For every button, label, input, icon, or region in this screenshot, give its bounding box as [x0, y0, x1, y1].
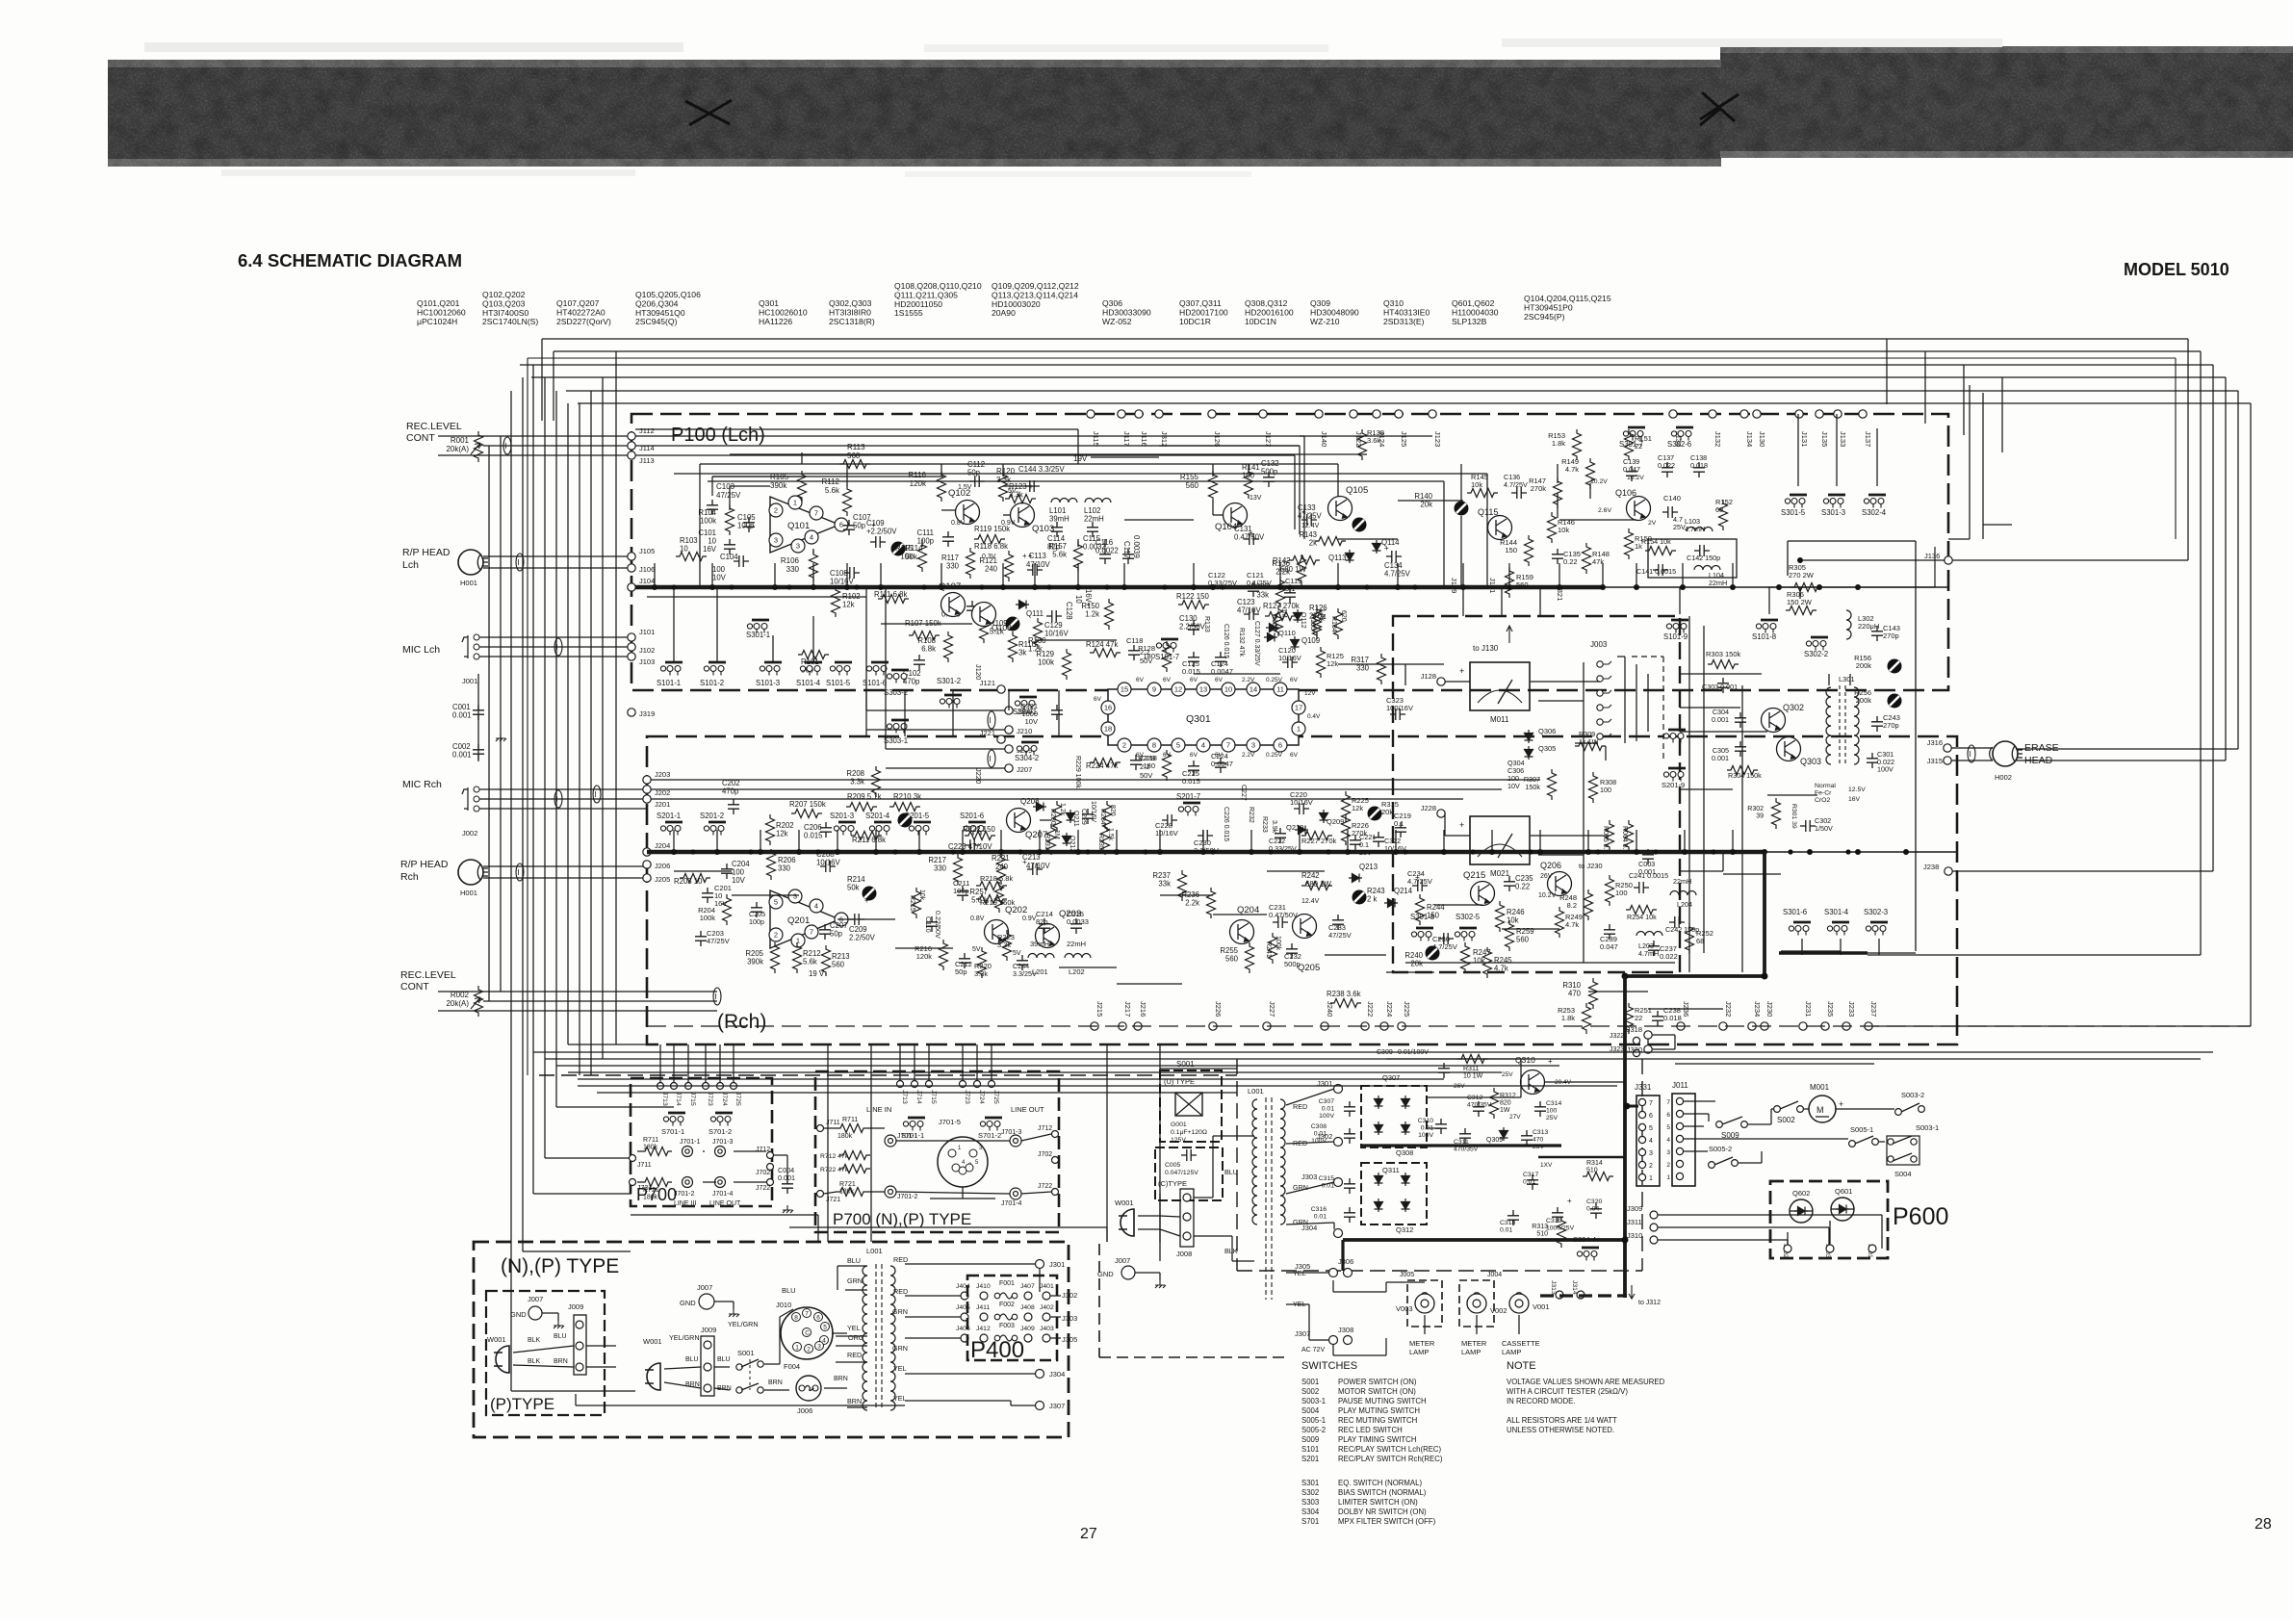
capacitor C211: [957, 886, 968, 901]
svg-text:to J312: to J312: [1638, 1300, 1661, 1306]
junction: [1075, 849, 1081, 855]
svg-text:R227 270k: R227 270k: [1301, 837, 1337, 845]
svg-text:2: 2: [1666, 1162, 1670, 1169]
svg-text:2: 2: [1649, 1163, 1653, 1170]
resistor R150b: [1625, 528, 1634, 559]
svg-text:SLP132B: SLP132B: [1452, 317, 1487, 326]
svg-text:3.6k: 3.6k: [1367, 436, 1380, 445]
svg-text:J115: J115: [1092, 431, 1100, 447]
pin 8: [1147, 738, 1161, 752]
svg-text:to J130: to J130: [1473, 644, 1499, 653]
svg-text:R301 39: R301 39: [1791, 804, 1797, 829]
svg-text:12: 12: [1174, 685, 1182, 694]
switch S201-3: [834, 822, 856, 836]
capacitor C236: [1438, 933, 1454, 944]
svg-text:180k: 180k: [643, 1145, 658, 1151]
wire: [866, 709, 1005, 711]
inductor L302: [1846, 610, 1851, 639]
capacitor C204: [721, 864, 733, 879]
connector J136r: [1945, 556, 1952, 564]
inductor L103: [1687, 528, 1713, 532]
svg-text:390k: 390k: [747, 958, 763, 967]
svg-text:27V: 27V: [1509, 1114, 1521, 1121]
svg-text:25V: 25V: [1533, 1144, 1545, 1150]
svg-text:AC 72V: AC 72V: [1301, 1347, 1325, 1353]
svg-text:S301-3: S301-3: [1821, 508, 1845, 517]
potentiometer pot: [1353, 518, 1367, 532]
svg-text:S201-3: S201-3: [830, 812, 854, 820]
capacitor C203: [695, 931, 707, 946]
svg-text:C318: C318: [1500, 1220, 1515, 1226]
svg-text:R218 6.8k: R218 6.8k: [980, 874, 1013, 883]
capacitor C112: [969, 476, 985, 487]
svg-text:3k: 3k: [1018, 649, 1026, 657]
svg-text:R313: R313: [1532, 1224, 1548, 1230]
svg-text:J230: J230: [1765, 1001, 1774, 1017]
resistor R236: [1207, 888, 1216, 918]
svg-text:Q308: Q308: [1396, 1148, 1413, 1157]
svg-text:C229: C229: [1080, 809, 1087, 825]
svg-text:1.5k: 1.5k: [1107, 828, 1114, 841]
svg-text:J713: J713: [901, 1090, 908, 1104]
connector J701-4: [715, 1177, 726, 1188]
svg-text:J402: J402: [1040, 1304, 1054, 1311]
wire meter box feeds: [1680, 673, 1762, 675]
transistor Q215: [1471, 882, 1495, 906]
rectifier Q307 Q308 box: [1361, 1086, 1427, 1147]
capacitor C312: [1473, 1101, 1484, 1117]
resistor R112: [843, 485, 852, 516]
connector J313: [1556, 1291, 1563, 1299]
svg-text:500p: 500p: [1284, 960, 1301, 968]
svg-text:C126 0.015: C126 0.015: [1223, 624, 1229, 658]
svg-text:J210: J210: [1017, 727, 1032, 735]
svg-text:NOTE: NOTE: [1507, 1360, 1536, 1372]
wire: [905, 1373, 1036, 1375]
svg-text:J313: J313: [1550, 1280, 1557, 1295]
svg-text:0.022: 0.022: [1660, 952, 1678, 961]
svg-text:180k: 180k: [837, 1133, 853, 1140]
svg-text:0.8V: 0.8V: [970, 915, 985, 922]
transistor Q302: [1762, 709, 1786, 733]
svg-text:L202: L202: [1069, 967, 1085, 976]
connector J117: [1118, 410, 1125, 418]
svg-text:R222 150: R222 150: [963, 825, 995, 834]
svg-text:+: +: [1839, 1099, 1843, 1109]
svg-text:J321: J321: [1556, 585, 1564, 601]
wire 19V rail: [700, 463, 1338, 465]
wire bold vertical: [1623, 976, 1627, 1298]
inductor L204: [1670, 891, 1696, 896]
scan mark X left: [685, 100, 732, 125]
wire nest top: [542, 338, 2188, 340]
svg-text:J724: J724: [721, 1092, 728, 1106]
resistor R220: [978, 947, 987, 978]
svg-text:Normal: Normal: [1815, 783, 1836, 789]
resistor R216: [940, 940, 948, 970]
transistor Q202: [985, 920, 1009, 944]
svg-text:R210 3k: R210 3k: [893, 792, 921, 801]
diode Q306: [1525, 730, 1533, 743]
wire meter internal: [1583, 662, 1584, 963]
svg-text:0.047: 0.047: [1623, 465, 1640, 474]
wire: [1286, 1089, 1334, 1105]
svg-text:10.2V: 10.2V: [1590, 478, 1608, 485]
connector J140: [1315, 410, 1323, 418]
svg-text:R221: R221: [992, 854, 1010, 863]
svg-text:5: 5: [774, 898, 778, 907]
resistor R131: [1275, 606, 1283, 636]
svg-text:J007: J007: [1115, 1256, 1130, 1265]
svg-text:P400: P400: [970, 1337, 1024, 1363]
svg-text:J410: J410: [976, 1283, 991, 1290]
svg-text:R211 6.8k: R211 6.8k: [852, 836, 886, 844]
connector J207: [1005, 764, 1013, 772]
resistor R126: [1313, 608, 1322, 639]
svg-text:25V: 25V: [1359, 848, 1372, 857]
connector J202: [643, 786, 651, 793]
svg-text:J007: J007: [528, 1295, 543, 1303]
svg-text:S004: S004: [1894, 1170, 1912, 1178]
svg-text:0.001: 0.001: [778, 1173, 795, 1182]
svg-text:J701-1: J701-1: [897, 1133, 918, 1140]
svg-text:4: 4: [1201, 741, 1205, 750]
svg-text:J123: J123: [1433, 431, 1442, 447]
wire: [1332, 1280, 1334, 1292]
capacitor C208: [820, 861, 836, 872]
capacitor C131: [1244, 533, 1259, 545]
junction: [1730, 584, 1736, 590]
svg-text:560: 560: [1225, 955, 1239, 964]
svg-text:8: 8: [1152, 741, 1156, 750]
svg-text:(Rch): (Rch): [717, 1011, 766, 1033]
resistor R128: [1163, 641, 1172, 672]
diode Q211: [1067, 810, 1075, 823]
connector J714: [912, 1081, 918, 1088]
wire: [1658, 1214, 1882, 1216]
resistor R121: [1005, 551, 1014, 581]
svg-text:J104: J104: [639, 577, 655, 585]
svg-text:Q215: Q215: [1463, 870, 1485, 881]
capacitor C143: [1871, 626, 1883, 641]
svg-text:470p: 470p: [722, 787, 739, 796]
connector J301np: [1036, 1260, 1044, 1269]
capacitor C117: [1122, 549, 1134, 564]
lamp box J004: [1459, 1280, 1494, 1327]
capacitor C214: [1039, 918, 1050, 934]
pin 4: [1197, 738, 1210, 752]
svg-text:510: 510: [1536, 1231, 1548, 1238]
resistor R127: [1265, 612, 1296, 621]
switch S303-1: [887, 720, 909, 734]
wire: [1444, 813, 1446, 836]
fuse F003: [905, 1337, 961, 1339]
connector J331 pin 2: [1638, 1161, 1645, 1168]
svg-text:BLU: BLU: [1224, 1168, 1238, 1176]
diode Q213: [1349, 874, 1362, 883]
svg-text:25V: 25V: [1502, 1071, 1513, 1078]
resistor R138: [1358, 429, 1367, 460]
connector J227: [1263, 1022, 1271, 1030]
svg-text:BIAS SWITCH (NORMAL): BIAS SWITCH (NORMAL): [1338, 1488, 1427, 1497]
svg-text:3: 3: [1666, 1149, 1670, 1156]
resistor R106: [810, 551, 818, 581]
svg-text:Q206: Q206: [1540, 861, 1561, 870]
svg-text:F003: F003: [999, 1323, 1015, 1329]
svg-text:4.7/25V: 4.7/25V: [1407, 877, 1432, 886]
svg-text:F004: F004: [784, 1362, 800, 1371]
svg-text:2: 2: [807, 1347, 811, 1353]
svg-text:J725: J725: [734, 1092, 741, 1106]
resistor R210: [889, 803, 920, 812]
svg-text:J228: J228: [1421, 804, 1436, 812]
switch S201-7: [1178, 803, 1200, 816]
svg-text:0.022: 0.022: [1658, 461, 1675, 470]
resistor R123: [1005, 495, 1036, 503]
svg-text:C303 0.001: C303 0.001: [1702, 683, 1738, 691]
svg-text:R154 10k: R154 10k: [1641, 537, 1671, 546]
svg-text:to J230: to J230: [1579, 862, 1603, 870]
wire: [711, 477, 713, 496]
wire bold horizontal: [1625, 974, 1765, 978]
capacitor C304: [1735, 712, 1746, 728]
svg-text:0.001: 0.001: [452, 751, 472, 760]
svg-text:10 1W: 10 1W: [1463, 1073, 1483, 1080]
svg-text:C110: C110: [924, 916, 933, 933]
svg-text:10V: 10V: [1507, 782, 1520, 790]
svg-text:270k: 270k: [1531, 484, 1547, 493]
svg-text:J701-2: J701-2: [897, 1194, 918, 1200]
connector J712b: [1052, 1131, 1059, 1138]
resistor R313: [1558, 1217, 1566, 1248]
junction: [1114, 849, 1120, 855]
svg-text:J412: J412: [976, 1326, 991, 1332]
svg-text:+: +: [1567, 1197, 1572, 1205]
svg-text:R215: R215: [909, 895, 915, 912]
svg-text:J222: J222: [1366, 1001, 1375, 1017]
svg-text:HA11226: HA11226: [759, 317, 792, 326]
resistor R149: [1586, 458, 1595, 489]
connector J216: [1134, 1022, 1142, 1030]
connector J319: [628, 709, 635, 716]
svg-text:1/50V: 1/50V: [1815, 824, 1833, 833]
svg-text:0.22: 0.22: [1515, 883, 1530, 891]
svg-text:J713: J713: [661, 1092, 668, 1106]
svg-text:R238 3.6k: R238 3.6k: [1327, 990, 1361, 998]
svg-text:J301: J301: [1049, 1260, 1065, 1269]
svg-text:Q212: Q212: [1069, 836, 1075, 852]
svg-text:390k: 390k: [770, 481, 787, 490]
wire: [1800, 559, 1945, 561]
svg-text:S005-1: S005-1: [1850, 1125, 1873, 1134]
svg-text:J134: J134: [1745, 431, 1754, 447]
svg-text:22mH: 22mH: [1067, 940, 1086, 948]
svg-text:J723: J723: [964, 1090, 970, 1104]
switch S302-4: [1864, 495, 1886, 508]
svg-text:S005-1: S005-1: [1301, 1416, 1326, 1425]
svg-text:R132 47k: R132 47k: [1238, 628, 1245, 657]
svg-text:J235: J235: [1826, 1001, 1835, 1017]
wire: [647, 1025, 2251, 1027]
resistor R110: [1009, 632, 1018, 662]
connector J112: [628, 432, 635, 440]
svg-text:Q307: Q307: [1382, 1073, 1400, 1082]
potentiometer R315: [1368, 807, 1382, 821]
svg-text:M021: M021: [1490, 869, 1510, 878]
svg-text:0.01: 0.01: [1322, 1106, 1334, 1113]
svg-text:500p: 500p: [1261, 468, 1278, 477]
resistor R203: [680, 874, 710, 883]
junction: [1277, 584, 1283, 590]
junction: [1600, 584, 1606, 590]
svg-text:Q302: Q302: [1783, 703, 1804, 712]
connector J603: [1826, 1245, 1834, 1252]
svg-text:J207: J207: [1017, 765, 1032, 774]
connector J011 pin 3: [1676, 1147, 1683, 1154]
wire bottom mid horizontals: [631, 1214, 818, 1216]
svg-text:WZ-210: WZ-210: [1310, 317, 1340, 326]
svg-text:13V: 13V: [1250, 495, 1262, 502]
svg-text:C314: C314: [1546, 1100, 1561, 1107]
resistor R304: [1727, 766, 1758, 775]
capacitor C244: [1017, 955, 1028, 970]
svg-text:J723: J723: [707, 1092, 713, 1106]
svg-text:P600: P600: [1893, 1203, 1948, 1230]
transistor Q206: [1548, 872, 1572, 896]
junction: [1441, 849, 1447, 855]
wire feeder drops: [659, 1044, 661, 1083]
svg-text:BRN: BRN: [554, 1358, 568, 1365]
diode Q113: [1346, 550, 1354, 563]
capacitor C242: [1669, 916, 1685, 928]
svg-text:10/16V: 10/16V: [1044, 630, 1069, 638]
resistor R124: [1090, 649, 1121, 657]
svg-text:82p: 82p: [1036, 917, 1048, 926]
resistor R145: [1467, 489, 1498, 498]
svg-text:MOTOR SWITCH (ON): MOTOR SWITCH (ON): [1338, 1387, 1416, 1396]
svg-text:J701-3: J701-3: [712, 1139, 734, 1146]
diode Q214: [1384, 899, 1398, 908]
connector J124: [1373, 410, 1380, 418]
transistor Q203: [1036, 924, 1060, 948]
junction: [1345, 849, 1351, 855]
svg-text:2.2k: 2.2k: [1275, 568, 1290, 577]
wire: [438, 435, 631, 437]
svg-text:J128: J128: [1421, 672, 1436, 681]
svg-text:PLAY MUTING SWITCH: PLAY MUTING SWITCH: [1338, 1406, 1420, 1415]
junction: [998, 849, 1004, 855]
connector J102: [628, 643, 635, 651]
wire: [699, 464, 701, 587]
svg-text:0.015: 0.015: [804, 832, 823, 840]
svg-text:4.7k: 4.7k: [1565, 465, 1579, 474]
svg-text:0.22/50V: 0.22/50V: [934, 911, 942, 939]
resistor R302: [1772, 798, 1781, 829]
capacitor C141: [1653, 564, 1668, 576]
svg-text:S301-4: S301-4: [1824, 908, 1849, 916]
svg-text:19 V: 19 V: [809, 969, 825, 978]
svg-text:J206: J206: [655, 862, 670, 870]
svg-text:200k: 200k: [1856, 696, 1872, 705]
svg-text:0.0047: 0.0047: [1211, 667, 1233, 676]
svg-text:50V: 50V: [1140, 771, 1152, 780]
svg-text:RED: RED: [893, 1255, 908, 1264]
svg-text:MIC Rch: MIC Rch: [402, 779, 442, 790]
wire right verticals: [1969, 385, 1971, 539]
resistor R152: [1719, 500, 1728, 530]
resistor R254: [1626, 906, 1657, 915]
svg-text:C141 0.0015: C141 0.0015: [1636, 567, 1676, 576]
svg-text:H001: H001: [460, 889, 477, 897]
connector J307 J308: [1329, 1336, 1338, 1345]
wire Rch bus: [647, 850, 1765, 854]
svg-text:J307: J307: [1295, 1329, 1310, 1338]
lamp V001: [1509, 1293, 1529, 1313]
connector J311: [1650, 1224, 1658, 1231]
capacitor C230: [1198, 830, 1213, 841]
svg-text:YEL/GRN: YEL/GRN: [669, 1333, 700, 1342]
svg-text:J137: J137: [1864, 431, 1872, 447]
svg-text:Q211: Q211: [1072, 811, 1079, 827]
svg-text:510: 510: [1586, 1168, 1598, 1174]
wire bold vertical right: [1763, 852, 1766, 976]
connector J715: [926, 1081, 933, 1088]
svg-text:20k(A): 20k(A): [446, 445, 469, 453]
resistor R314: [1583, 1173, 1613, 1181]
svg-text:F002: F002: [999, 1302, 1015, 1308]
resistor R308: [1589, 772, 1598, 803]
connector J217: [1119, 1022, 1126, 1030]
svg-text:820: 820: [1109, 805, 1116, 816]
svg-text:R122 150: R122 150: [1176, 592, 1209, 601]
svg-text:10/16V: 10/16V: [1278, 654, 1301, 662]
resistor R217: [954, 854, 963, 885]
svg-text:68: 68: [1696, 937, 1704, 945]
switch S101-9b: [1663, 730, 1686, 743]
svg-text:CrO2: CrO2: [1815, 797, 1830, 804]
P100 Lch board outline: [631, 414, 1948, 690]
capacitor C315: [1344, 1178, 1355, 1194]
wire: [1445, 681, 1470, 683]
capacitor C303: [1717, 678, 1729, 693]
shield loop: [1968, 745, 1975, 762]
rectifier Q311 Q312 box: [1361, 1163, 1427, 1224]
svg-text:6V: 6V: [1215, 677, 1224, 683]
junction: [960, 849, 966, 855]
svg-text:R304 150k: R304 150k: [1728, 771, 1762, 780]
svg-text:S201-1: S201-1: [657, 812, 681, 820]
svg-text:11: 11: [1276, 685, 1284, 694]
potentiometer R140: [1455, 502, 1469, 516]
svg-text:2.2k: 2.2k: [1185, 899, 1199, 908]
svg-text:0.8V: 0.8V: [951, 520, 966, 527]
switch S005-2: [1709, 1162, 1715, 1169]
capacitor C139: [1626, 466, 1637, 481]
junction: [1855, 849, 1861, 855]
connector J127: [1259, 410, 1267, 418]
svg-text:J220: J220: [974, 768, 983, 784]
svg-text:12.4V: 12.4V: [1301, 523, 1320, 529]
connector J701-4b: [1010, 1188, 1021, 1199]
svg-text:5: 5: [823, 1325, 827, 1331]
junction: [652, 584, 657, 590]
svg-text:W001: W001: [643, 1337, 662, 1346]
wire: [1679, 587, 1681, 614]
wire: [764, 1363, 780, 1365]
connector J122: [1350, 410, 1357, 418]
resistor R159: [1506, 567, 1514, 598]
svg-text:C242 150p: C242 150p: [1665, 925, 1699, 934]
